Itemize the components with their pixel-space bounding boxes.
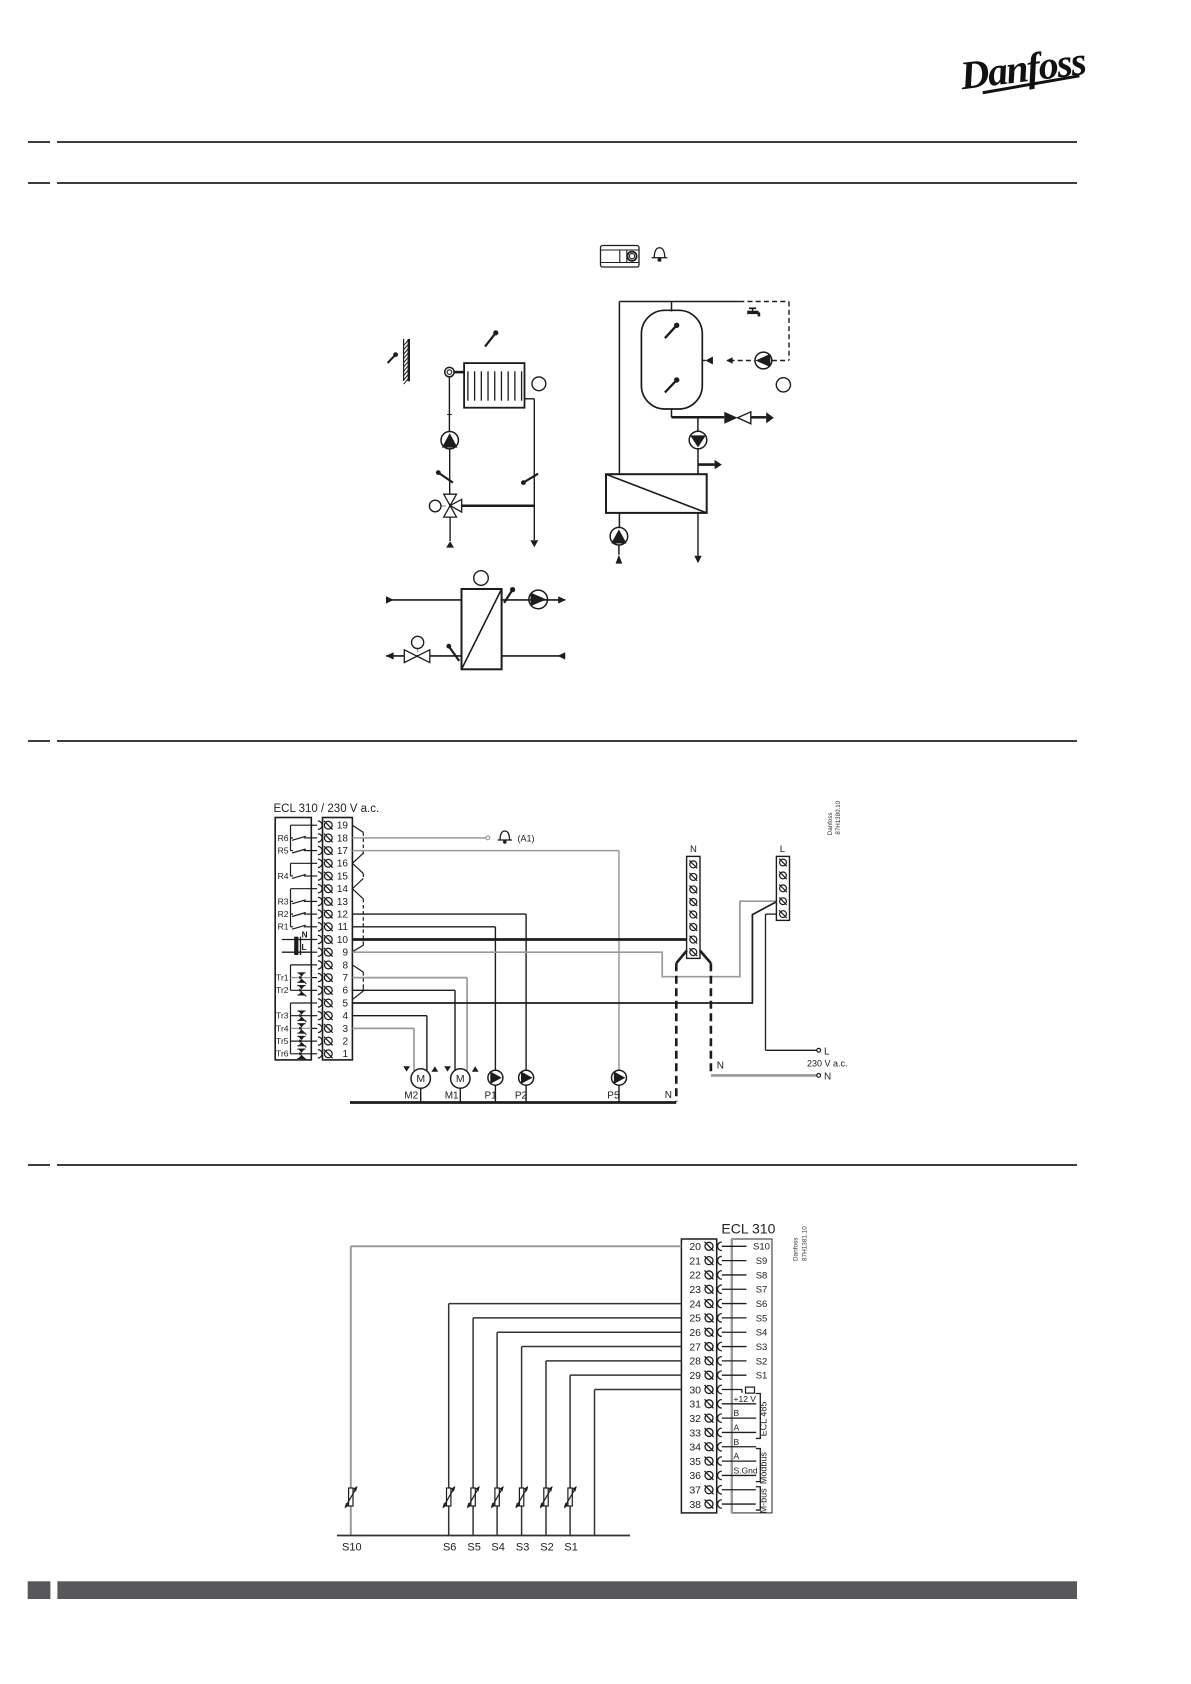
svg-text:P5: P5 [607, 1091, 620, 1102]
svg-text:31: 31 [689, 1399, 701, 1411]
svg-text:7: 7 [342, 973, 348, 984]
svg-text:S1: S1 [564, 1542, 577, 1554]
svg-text:Tr2: Tr2 [276, 985, 289, 995]
svg-text:N: N [824, 1071, 831, 1082]
svg-text:30: 30 [689, 1384, 701, 1396]
svg-text:8: 8 [342, 960, 348, 971]
svg-text:14: 14 [337, 884, 349, 895]
svg-text:13: 13 [337, 897, 349, 908]
svg-text:1: 1 [342, 1049, 348, 1060]
svg-text:19: 19 [337, 821, 349, 832]
svg-text:S1: S1 [756, 1371, 768, 1382]
svg-text:N: N [302, 931, 308, 940]
svg-text:R1: R1 [278, 922, 289, 932]
svg-text:Tr6: Tr6 [276, 1049, 289, 1059]
svg-text:B: B [734, 1437, 740, 1447]
svg-text:87H1380.10: 87H1380.10 [835, 800, 842, 834]
svg-text:23: 23 [689, 1284, 701, 1296]
svg-text:S2: S2 [540, 1542, 553, 1554]
svg-text:33: 33 [689, 1427, 701, 1439]
svg-text:29: 29 [689, 1370, 701, 1382]
svg-text:P2: P2 [515, 1091, 528, 1102]
svg-text:11: 11 [338, 922, 349, 933]
svg-text:5: 5 [342, 998, 348, 1009]
svg-text:Modbus: Modbus [759, 1452, 769, 1485]
svg-text:10: 10 [337, 935, 349, 946]
svg-text:6: 6 [342, 986, 348, 997]
svg-text:Tr3: Tr3 [276, 1011, 289, 1021]
svg-text:35: 35 [689, 1456, 701, 1468]
svg-text:25: 25 [689, 1313, 701, 1325]
svg-text:28: 28 [689, 1356, 701, 1368]
svg-text:S6: S6 [756, 1299, 768, 1310]
svg-text:38: 38 [689, 1499, 701, 1511]
svg-text:S4: S4 [491, 1542, 504, 1554]
svg-text:R3: R3 [278, 896, 289, 906]
svg-text:230 V a.c.: 230 V a.c. [807, 1059, 848, 1069]
svg-text:Tr1: Tr1 [276, 973, 289, 983]
svg-text:R4: R4 [278, 871, 289, 881]
svg-text:Tr4: Tr4 [276, 1023, 289, 1033]
svg-text:P1: P1 [485, 1091, 498, 1102]
svg-text:2: 2 [342, 1037, 348, 1048]
svg-text:Tr5: Tr5 [276, 1036, 289, 1046]
svg-text:37: 37 [689, 1485, 701, 1497]
svg-text:A: A [734, 1451, 740, 1461]
svg-text:27: 27 [689, 1341, 701, 1353]
svg-text:S5: S5 [756, 1313, 768, 1324]
svg-text:32: 32 [689, 1413, 701, 1425]
svg-text:15: 15 [337, 871, 349, 882]
svg-text:S9: S9 [756, 1256, 768, 1267]
svg-text:16: 16 [337, 859, 349, 870]
svg-text:L: L [301, 943, 306, 952]
svg-text:S3: S3 [516, 1542, 529, 1554]
svg-text:26: 26 [689, 1327, 701, 1339]
svg-text:M: M [416, 1073, 425, 1085]
svg-text:S.Gnd: S.Gnd [734, 1465, 758, 1475]
svg-text:S5: S5 [467, 1542, 480, 1554]
svg-text:34: 34 [689, 1442, 701, 1454]
svg-text:Danfoss: Danfoss [827, 812, 834, 835]
svg-text:M1: M1 [445, 1091, 459, 1102]
svg-text:S3: S3 [756, 1342, 768, 1353]
svg-text:S6: S6 [443, 1542, 456, 1554]
svg-text:3: 3 [342, 1024, 348, 1035]
svg-text:21: 21 [689, 1255, 701, 1267]
svg-text:S7: S7 [756, 1285, 768, 1296]
svg-text:ECL 485: ECL 485 [759, 1402, 769, 1437]
svg-text:S8: S8 [756, 1270, 768, 1281]
svg-text:R2: R2 [278, 909, 289, 919]
svg-text:24: 24 [689, 1298, 701, 1310]
svg-text:(A1): (A1) [518, 833, 535, 843]
svg-text:22: 22 [689, 1270, 701, 1282]
svg-text:9: 9 [342, 948, 348, 959]
svg-text:4: 4 [342, 1011, 348, 1022]
svg-text:N: N [690, 844, 697, 855]
svg-text:R5: R5 [278, 846, 289, 856]
svg-text:S2: S2 [756, 1356, 768, 1367]
svg-text:M-bus: M-bus [759, 1488, 769, 1514]
svg-text:M: M [456, 1073, 465, 1085]
svg-text:L: L [780, 844, 785, 855]
svg-text:20: 20 [689, 1241, 701, 1253]
svg-text:M2: M2 [404, 1091, 418, 1102]
svg-text:36: 36 [689, 1470, 701, 1482]
svg-text:A: A [734, 1422, 740, 1432]
svg-text:N: N [665, 1090, 672, 1101]
svg-text:Danfoss: Danfoss [793, 1238, 800, 1261]
svg-text:S4: S4 [756, 1328, 768, 1339]
svg-text:S10: S10 [342, 1542, 362, 1554]
svg-text:+12 V: +12 V [734, 1394, 757, 1404]
svg-text:17: 17 [337, 846, 349, 857]
svg-text:L: L [824, 1046, 830, 1057]
svg-text:ECL 310: ECL 310 [721, 1221, 775, 1237]
svg-text:87H1381.10: 87H1381.10 [802, 1226, 809, 1261]
svg-text:R6: R6 [278, 833, 289, 843]
svg-text:ECL 310 / 230 V a.c.: ECL 310 / 230 V a.c. [274, 803, 380, 815]
svg-text:12: 12 [337, 910, 349, 921]
svg-text:S10: S10 [753, 1242, 770, 1253]
svg-text:N: N [717, 1061, 724, 1072]
svg-text:B: B [734, 1408, 740, 1418]
svg-text:18: 18 [337, 833, 349, 844]
